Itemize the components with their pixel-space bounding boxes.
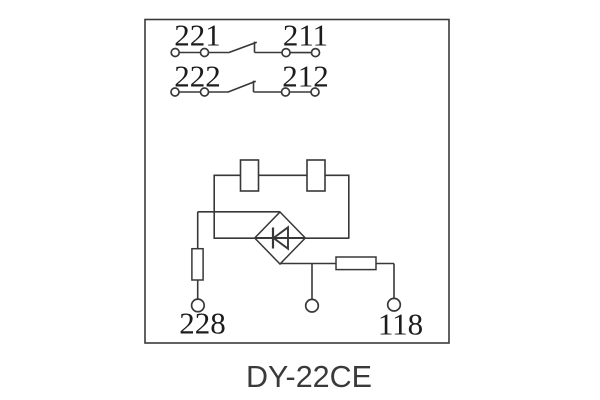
terminal 228 xyxy=(192,299,205,312)
svg-text:211: 211 xyxy=(283,18,328,53)
svg-text:DY-22CE: DY-22CE xyxy=(246,360,372,394)
terminal 212 outer xyxy=(311,88,319,96)
terminal 222 outer xyxy=(171,88,179,96)
switch blade K1 xyxy=(228,42,256,53)
terminal 221 outer xyxy=(171,49,179,57)
wire xyxy=(209,91,228,93)
wire middle terminal drop xyxy=(311,264,313,300)
wire bridge bottom output xyxy=(280,263,394,265)
middle terminal xyxy=(306,299,319,312)
rectifier bridge VC diamond xyxy=(255,212,306,264)
wire coil loop right xyxy=(348,175,350,239)
wire right terminal drop xyxy=(393,264,395,299)
wire bridge right arm xyxy=(305,237,349,239)
switch fixed contact tick K1 xyxy=(254,42,256,53)
svg-text:221: 221 xyxy=(174,18,221,53)
wire xyxy=(179,52,200,54)
terminal 222 inner xyxy=(201,88,209,96)
diode cathode bar xyxy=(272,228,274,249)
wire xyxy=(290,52,311,54)
coil resistor R1 xyxy=(241,160,259,191)
wire xyxy=(209,52,229,54)
switch blade K2 xyxy=(228,81,256,92)
wire xyxy=(255,52,282,54)
wire xyxy=(179,91,200,93)
wire bridge left arm xyxy=(214,237,255,239)
terminal 211 outer xyxy=(312,49,320,57)
switch fixed contact tick K2 xyxy=(253,81,255,92)
diode triangle xyxy=(274,227,289,248)
svg-text:212: 212 xyxy=(282,59,329,94)
svg-text:228: 228 xyxy=(179,306,226,341)
resistor R4 xyxy=(336,257,376,270)
rectifier internal line xyxy=(255,237,306,239)
wire left branch vertical xyxy=(197,212,199,250)
relay case outline xyxy=(145,20,449,344)
wire coil loop left xyxy=(213,175,215,240)
terminal 221 inner xyxy=(201,49,209,57)
wire xyxy=(290,91,311,93)
terminal 118 xyxy=(388,298,401,311)
terminal 212 inner xyxy=(282,88,290,96)
wire xyxy=(197,280,199,299)
wire xyxy=(254,91,282,93)
svg-text:222: 222 xyxy=(174,59,221,94)
resistor R3 xyxy=(192,249,203,280)
wire top branch to bridge xyxy=(198,211,280,213)
svg-text:118: 118 xyxy=(378,307,423,342)
wire coil loop top xyxy=(214,174,349,176)
terminal 211 inner xyxy=(282,49,290,57)
coil resistor R2 xyxy=(307,160,325,191)
